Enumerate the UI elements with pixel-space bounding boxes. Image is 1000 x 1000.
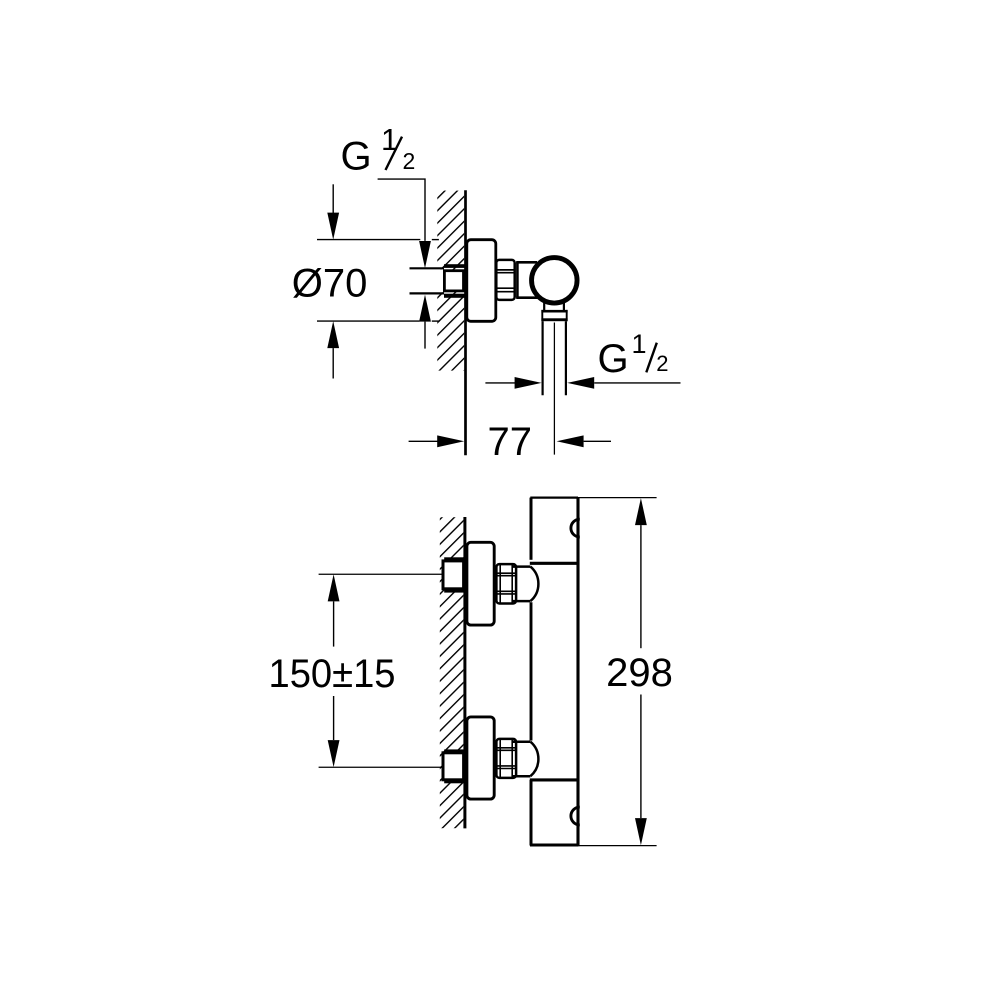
wall hatching (top view) (437, 191, 464, 371)
upper supply socket bars (bottom view) (444, 557, 465, 561)
Ø70 arrow (up, below lower line) (327, 321, 339, 348)
upper supply center line (319, 573, 442, 575)
union square (top view) (444, 271, 463, 291)
svg-text:150±15: 150±15 (269, 652, 396, 696)
outlet axis center line (553, 323, 555, 455)
svg-text:1: 1 (632, 329, 647, 359)
upper union square (bottom view) (443, 561, 464, 589)
lower supply center line (319, 766, 442, 768)
upper hex nut (bottom view) (496, 564, 516, 603)
Ø70 upper extension line (317, 239, 420, 241)
escutcheon flange (top view) (467, 240, 496, 322)
arrow up at pipe bottom (G1/2 size) (419, 295, 431, 322)
wall surface line (top view) (464, 190, 467, 455)
lower escutcheon flange (bottom view) (467, 717, 494, 799)
leader line from G 1/2 label to pipe (378, 179, 425, 241)
wall socket bars (top view) (444, 264, 466, 268)
outlet pipe (top view) (541, 321, 543, 395)
svg-text:2: 2 (403, 148, 416, 174)
svg-text:G: G (598, 337, 629, 381)
hex nut (top view) (496, 260, 514, 300)
upper union dome (bottom view) (513, 567, 538, 602)
label G 1/2 (outlet) (598, 329, 669, 381)
svg-text:298: 298 (606, 651, 673, 695)
handle knob circle (top view) (532, 258, 578, 304)
svg-text:Ø70: Ø70 (292, 261, 368, 305)
supply pipe interior mask (top view) (410, 269, 445, 292)
svg-text:2: 2 (656, 351, 668, 376)
77 dimension (409, 440, 438, 442)
150±15 dimension arrows (328, 574, 340, 601)
label G 1/2 (top) (341, 122, 416, 178)
mixer body outline (bottom view) (530, 498, 578, 847)
svg-text:77: 77 (488, 420, 533, 464)
knob axis circle (upper, bottom view) (571, 519, 580, 537)
lower hex nut (bottom view) (496, 739, 516, 778)
supply pipe outline (top view) (410, 267, 445, 269)
outlet collar band (top view) (541, 310, 567, 321)
Ø70 arrow (down, above upper line) (332, 184, 334, 213)
298 dimension (578, 497, 657, 499)
Ø70 lower extension line (317, 320, 419, 322)
svg-text:G: G (341, 134, 372, 178)
outlet neck (top view) (543, 302, 545, 311)
knob axis circle (lower, bottom view) (571, 807, 580, 825)
valve body collar (top view) (516, 262, 539, 298)
lower union square (bottom view) (443, 753, 464, 780)
G1/2 dimension arrows (outlet) (485, 382, 515, 384)
wall surface line (bottom view) (463, 517, 466, 828)
leader arrowhead (down, tip on pipe top) (419, 241, 431, 268)
upper escutcheon flange (bottom view) (467, 542, 494, 625)
lower supply socket bars (bottom view) (444, 749, 465, 753)
lower union dome (bottom view) (513, 742, 538, 777)
wall hatching (bottom view) (440, 517, 464, 828)
